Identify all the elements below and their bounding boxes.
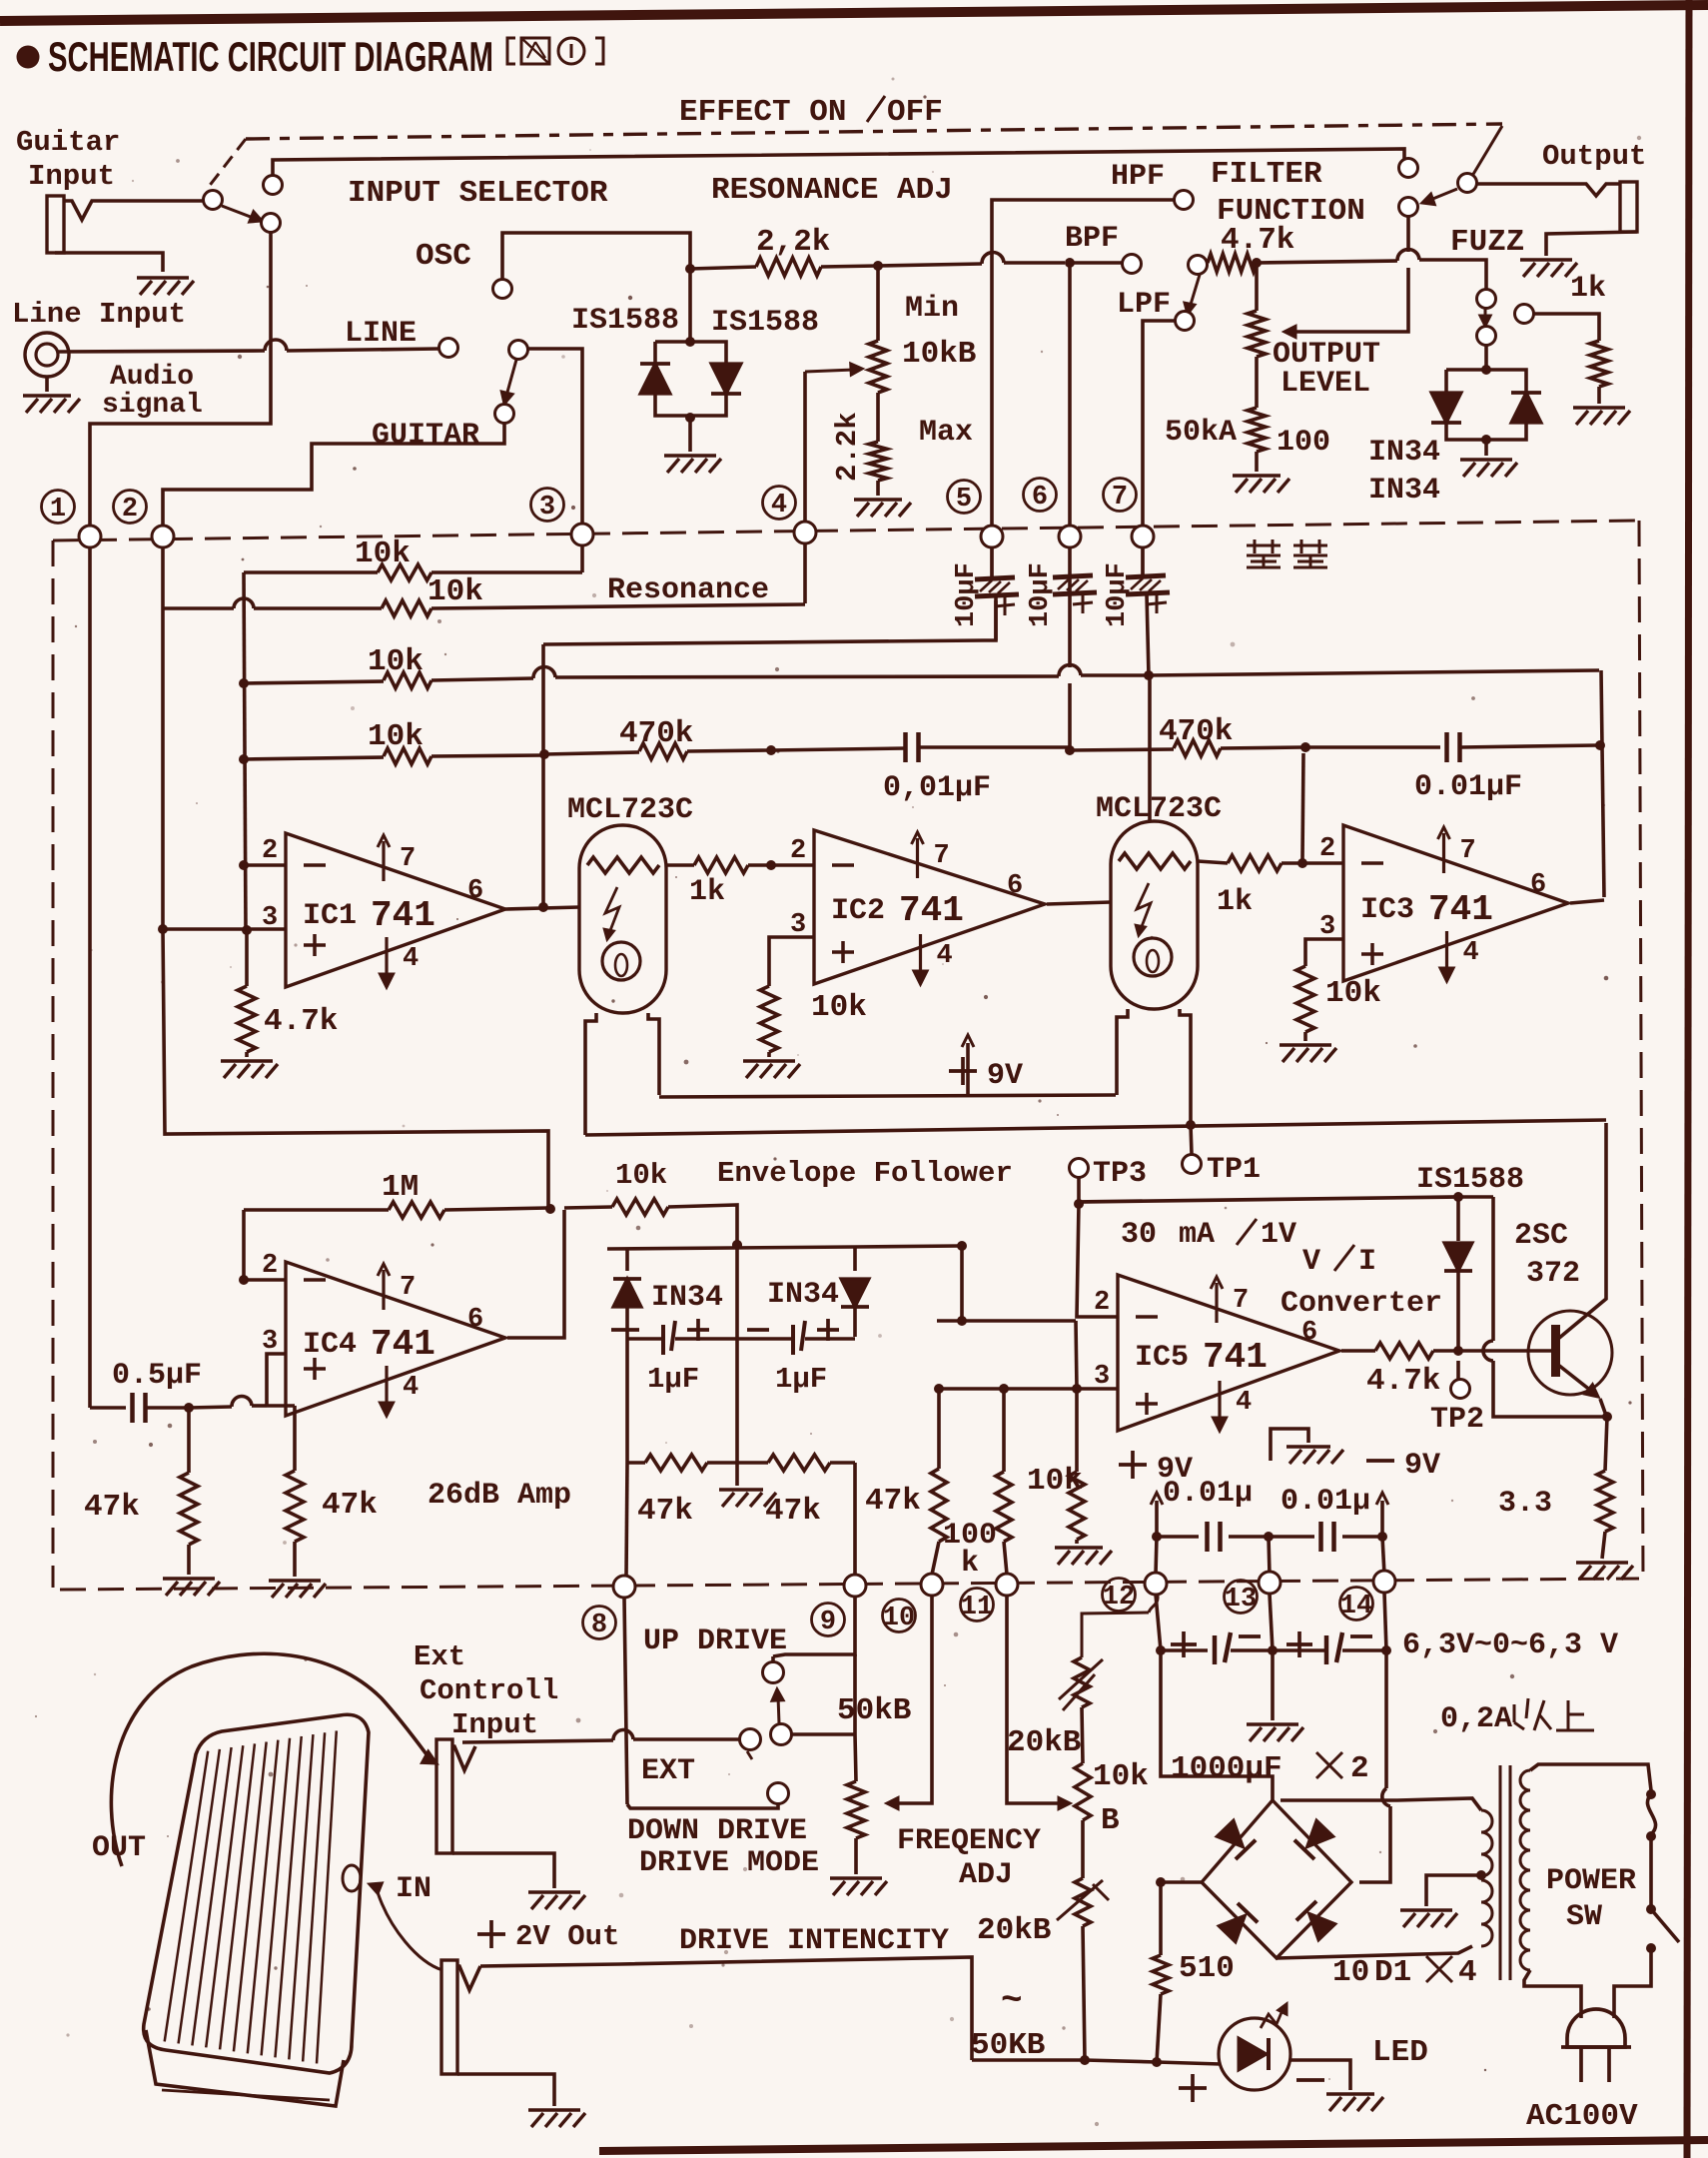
effect output contact bottom — [1399, 198, 1418, 217]
svg-text:0.01μ: 0.01μ — [1163, 1477, 1253, 1511]
ground LED — [1326, 2092, 1374, 2096]
diode D2 IS1588 — [711, 364, 741, 394]
svg-text:20kB: 20kB — [1007, 1725, 1081, 1760]
scan speckles — [561, 355, 565, 359]
svg-text:47k: 47k — [765, 1494, 821, 1529]
svg-text:IS1588: IS1588 — [571, 304, 679, 338]
transformer secondary top — [1281, 1798, 1481, 1810]
svg-text:0,2A: 0,2A — [1440, 1702, 1512, 1736]
svg-text:Max: Max — [919, 416, 973, 450]
wire IC1 pin3 — [163, 927, 286, 931]
ground env — [735, 1463, 739, 1486]
wire cap2 column down — [1068, 547, 1072, 667]
op-amp IC5 741 — [1118, 1275, 1339, 1431]
wire IC2 pin3 — [769, 937, 814, 986]
svg-text:TP2: TP2 — [1430, 1403, 1484, 1437]
effect on/off dashed control line — [246, 124, 1502, 139]
svg-text:6: 6 — [467, 876, 483, 906]
ground mid — [1271, 1429, 1308, 1461]
svg-text:10μF: 10μF — [1103, 562, 1133, 627]
node 7 — [1104, 479, 1137, 512]
wire to IC4 pin3 — [267, 1354, 286, 1406]
wire env center rail — [735, 1245, 739, 1463]
wire node3 stub — [580, 545, 584, 572]
svg-text:~: ~ — [1001, 1980, 1023, 2021]
svg-text:741: 741 — [1428, 889, 1493, 930]
svg-text:OSC: OSC — [416, 239, 471, 274]
svg-text:Min: Min — [905, 292, 959, 326]
ground caps — [1271, 1650, 1275, 1720]
ground +2V jack — [528, 2108, 580, 2112]
svg-text:2: 2 — [1350, 1751, 1369, 1786]
diode D1 IS1588 — [640, 364, 670, 394]
label minus LED — [1296, 2078, 1324, 2082]
svg-text:Output: Output — [1542, 140, 1646, 173]
svg-text:1000μF: 1000μF — [1171, 1751, 1282, 1786]
node 11 — [996, 1574, 1018, 1596]
svg-text:7: 7 — [1233, 1286, 1249, 1316]
wire +2V line — [480, 1957, 972, 2060]
svg-text:10k: 10k — [1093, 1759, 1149, 1794]
center tap ground — [1426, 1875, 1481, 1906]
svg-text:10k: 10k — [427, 574, 483, 609]
svg-text:50kA: 50kA — [1165, 416, 1237, 450]
svg-text:1k: 1k — [1570, 272, 1606, 306]
svg-text:IN34: IN34 — [1368, 436, 1440, 470]
node 14 — [1373, 1571, 1395, 1593]
test point TP3 — [1070, 1159, 1089, 1178]
wire bypass top — [273, 149, 1404, 176]
svg-text:IS1588: IS1588 — [711, 306, 819, 340]
output jack J2 — [1476, 184, 1620, 196]
bridge rectifier 10D1x4 — [1202, 1800, 1351, 1958]
svg-text:mA: mA — [1179, 1218, 1215, 1252]
bridge diode top-left — [1214, 1817, 1256, 1859]
wire IC3 output — [1570, 900, 1604, 903]
svg-text:0.5μF: 0.5μF — [112, 1359, 202, 1393]
arrow up left — [1155, 1501, 1159, 1535]
rail to transistor — [585, 1120, 1606, 1135]
op-amp IC4 741 — [286, 1262, 505, 1416]
50kB wiper — [894, 1597, 932, 1803]
main top wire to filter area — [878, 264, 982, 266]
arrow up right — [1380, 1501, 1384, 1535]
svg-text:6: 6 — [1007, 871, 1023, 901]
diode IN34 left — [1431, 393, 1461, 423]
page border right — [1687, 0, 1689, 2158]
wire 1M to IC4 pin2 — [242, 1210, 246, 1280]
pot drive intencity — [1081, 1820, 1085, 1878]
DOWN contact — [768, 1783, 789, 1804]
ground 10k d — [1055, 1546, 1103, 1550]
guitar input jack J1 — [47, 196, 64, 253]
pedal base — [146, 2030, 344, 2106]
svg-text:EFFECT ON: EFFECT ON — [679, 95, 846, 130]
IS1588 anti-parallel diode pair — [685, 337, 695, 347]
MCL2 legs — [1117, 1009, 1128, 1095]
ground 50kB — [830, 1876, 882, 1880]
svg-text:741: 741 — [899, 890, 964, 931]
switch to plug — [1614, 1948, 1651, 2018]
bridge diode bottom-right — [1296, 1901, 1338, 1943]
FUZZ arrow — [1484, 309, 1487, 320]
svg-text:26dB Amp: 26dB Amp — [427, 1479, 571, 1513]
transformer core — [1499, 1765, 1502, 1980]
svg-text:10kB: 10kB — [902, 337, 976, 372]
wire TP3 down to pin2 — [1077, 1204, 1118, 1317]
svg-text:FUZZ: FUZZ — [1450, 225, 1524, 260]
node 3 — [531, 489, 564, 522]
title kanji zu-1 bracket — [507, 38, 515, 64]
node 8 — [613, 1576, 635, 1598]
node 1 — [42, 491, 75, 524]
decoupling rail — [1157, 1535, 1199, 1539]
current sense line — [1079, 1197, 1456, 1202]
wire pole to 50kB — [792, 1732, 855, 1736]
ground line input — [23, 394, 71, 398]
svg-text:INPUT SELECTOR: INPUT SELECTOR — [348, 176, 608, 211]
rail +9V upper — [659, 1095, 1116, 1097]
10kB wiper arrow — [805, 370, 854, 372]
svg-text:47k: 47k — [322, 1488, 378, 1523]
wire IC1 pin2 — [244, 863, 286, 867]
svg-text:Resonance: Resonance — [607, 573, 769, 607]
svg-text:AC100V: AC100V — [1526, 2099, 1638, 2134]
BPF contact — [1123, 255, 1142, 274]
svg-text:1μF: 1μF — [775, 1363, 827, 1396]
wire to IC2 pin2 — [771, 863, 814, 867]
svg-text:MCL723C: MCL723C — [567, 793, 693, 827]
wire pin3 to +9v arrow — [0, 0, 1077, 1544]
drive mode pole — [771, 1724, 792, 1745]
selector pole GUITAR/LINE/OSC — [509, 341, 528, 360]
svg-text:3: 3 — [1094, 1362, 1110, 1392]
svg-text:100: 100 — [1277, 426, 1330, 460]
svg-text:IN34: IN34 — [651, 1281, 723, 1315]
ground 10k IC3 — [1280, 1043, 1331, 1047]
wire IC1 output — [505, 907, 579, 909]
svg-text:FILTER: FILTER — [1211, 157, 1322, 192]
svg-text:TP3: TP3 — [1093, 1157, 1147, 1191]
MCL1 legs — [585, 1013, 596, 1135]
wire left vertical V1 — [244, 572, 246, 930]
wire IC3 pin3 — [1305, 939, 1343, 966]
ground 47k b — [269, 1579, 321, 1583]
svg-text:BPF: BPF — [1065, 222, 1119, 256]
svg-text:IS1588: IS1588 — [1416, 1163, 1524, 1197]
svg-text:8: 8 — [591, 1611, 607, 1640]
node 9 — [844, 1575, 866, 1597]
LED row — [972, 2058, 1085, 2062]
svg-text:7: 7 — [400, 1273, 416, 1303]
svg-text:LEVEL: LEVEL — [1281, 367, 1370, 401]
svg-text:9V: 9V — [987, 1059, 1023, 1093]
svg-text:IC4: IC4 — [303, 1328, 357, 1362]
power switch — [1649, 1836, 1653, 1906]
svg-text:Controll: Controll — [420, 1674, 558, 1707]
wire IC4 pin2 stub — [244, 1278, 286, 1282]
ground output jack — [1520, 258, 1572, 262]
svg-text:10k: 10k — [811, 990, 867, 1025]
resonance pot 10kB — [876, 266, 880, 341]
wire IC2 output — [1047, 902, 1111, 904]
svg-text:B: B — [1101, 1803, 1120, 1838]
wire from bypass contact down — [90, 233, 271, 526]
input bypass switch pole — [204, 191, 223, 210]
bridge AC bottom — [1277, 1946, 1472, 1958]
wire wiper to node 4 — [803, 372, 807, 522]
label -9V — [1366, 1459, 1394, 1463]
svg-text:10: 10 — [1332, 1955, 1369, 1990]
svg-text:3: 3 — [539, 493, 555, 523]
svg-text:20kB: 20kB — [977, 1913, 1051, 1948]
1k contact — [1515, 305, 1534, 324]
svg-text:4: 4 — [1458, 1955, 1477, 1990]
svg-text:6: 6 — [1032, 483, 1048, 513]
bypass switch arrow — [222, 206, 256, 219]
svg-text:2V Out: 2V Out — [515, 1920, 619, 1953]
svg-text:RESONANCE ADJ: RESONANCE ADJ — [711, 173, 953, 208]
svg-text:7: 7 — [934, 841, 950, 871]
svg-text:4: 4 — [403, 944, 419, 974]
svg-text:POWER: POWER — [1546, 1864, 1636, 1898]
MCL2 top feed — [1148, 675, 1152, 821]
ground 10k IC2 — [743, 1059, 795, 1063]
wire node8 down — [624, 1598, 627, 1804]
svg-text:5: 5 — [956, 485, 972, 515]
transformer primary coil — [1520, 1770, 1530, 1970]
plus minus labels caps — [1171, 1642, 1197, 1646]
ground output level — [1233, 474, 1281, 478]
svg-text:IC5: IC5 — [1135, 1341, 1189, 1375]
svg-text:12: 12 — [1103, 1583, 1135, 1613]
freq wiper — [1007, 1597, 1062, 1803]
svg-text:4: 4 — [771, 491, 787, 521]
resistor 4.7k filter — [1208, 254, 1257, 272]
10uF cap column 1 — [990, 547, 994, 577]
wire node9 to UP contact — [773, 1597, 855, 1656]
effect output switch pole — [1458, 174, 1477, 193]
ground 47k a — [163, 1577, 215, 1581]
svg-text:14: 14 — [1340, 1592, 1372, 1621]
svg-text:10k: 10k — [615, 1159, 667, 1192]
wire pin3 row — [939, 1387, 1118, 1391]
svg-text:TP1: TP1 — [1207, 1153, 1261, 1187]
svg-text:LINE: LINE — [345, 317, 417, 351]
effect output contact top — [1399, 159, 1418, 178]
svg-text:741: 741 — [1203, 1337, 1268, 1378]
wire audio signal to LINE contact — [58, 351, 265, 352]
svg-text:1μF: 1μF — [647, 1363, 699, 1396]
envelope rail top — [607, 1247, 855, 1249]
wire env left rail down to node8 — [626, 1463, 627, 1576]
label +9V supply — [1119, 1463, 1147, 1467]
svg-text:IN34: IN34 — [1368, 474, 1440, 508]
svg-text:7: 7 — [1460, 836, 1476, 866]
wire rail drops — [1156, 1537, 1157, 1575]
ground ext jack — [528, 1890, 580, 1894]
node 2 — [114, 491, 147, 524]
wire GUITAR contact down-left to node 2 — [163, 424, 504, 526]
svg-text:Line Input: Line Input — [12, 298, 186, 331]
wire ext input — [462, 1740, 613, 1742]
wire node9 down to 50kB top — [855, 1654, 856, 1781]
title bullet — [17, 46, 40, 69]
svg-text:IN34: IN34 — [767, 1278, 839, 1312]
svg-text:2,2k: 2,2k — [756, 225, 830, 260]
selector arrow — [506, 360, 516, 396]
transistor collector — [1558, 1123, 1606, 1339]
bridge + rail — [1161, 1650, 1273, 1800]
test point TP1 — [1183, 1155, 1202, 1174]
wire y645 to cap1 bottom — [543, 600, 996, 644]
pot 10kB freq — [1082, 1707, 1083, 1763]
svg-text:I: I — [1358, 1245, 1376, 1279]
svg-text:10μF: 10μF — [1026, 562, 1056, 627]
pedal cable — [111, 1653, 429, 1866]
svg-text:47k: 47k — [637, 1494, 693, 1529]
primary top to switch — [1530, 1764, 1651, 1790]
svg-text:0,01μF: 0,01μF — [883, 771, 991, 805]
svg-text:6,3V~0~6,3 V: 6,3V~0~6,3 V — [1402, 1628, 1618, 1662]
wire contact to main line — [1406, 217, 1410, 252]
dashed diagonal to input bypass switch — [208, 139, 246, 188]
svg-text:2: 2 — [790, 836, 806, 866]
pot 20kB upper — [1074, 1657, 1090, 1707]
svg-text:SW: SW — [1566, 1900, 1602, 1934]
switch squiggle — [1647, 1794, 1655, 1834]
svg-text:10k: 10k — [368, 719, 424, 754]
transformer secondary coil — [1481, 1810, 1492, 1876]
diagonal to output bypass switch — [1472, 126, 1502, 176]
svg-text:741: 741 — [371, 895, 435, 936]
wire node1 down — [88, 547, 92, 1408]
svg-text:Guitar: Guitar — [16, 126, 120, 159]
svg-text:Converter: Converter — [1281, 1287, 1442, 1321]
svg-text:50KB: 50KB — [971, 2028, 1045, 2063]
wire node13 down — [1270, 1594, 1273, 1650]
bridge diode bottom-left — [1216, 1903, 1258, 1945]
wire LPF to node 7 — [1143, 321, 1176, 526]
svg-text:47k: 47k — [84, 1490, 140, 1525]
+9V arrow — [966, 1043, 970, 1095]
svg-text:50kB: 50kB — [837, 1693, 911, 1728]
svg-text:372: 372 — [1526, 1257, 1580, 1291]
ground 4.7k — [221, 1059, 273, 1063]
ground FUZZ diodes — [1460, 458, 1512, 462]
svg-text:ADJ: ADJ — [959, 1858, 1013, 1892]
wire env out drop — [960, 1246, 964, 1321]
svg-text:6: 6 — [467, 1305, 483, 1335]
label plus LED — [1179, 2086, 1207, 2090]
label +9V — [949, 1069, 977, 1073]
svg-text:FREQENCY: FREQENCY — [897, 1824, 1041, 1858]
svg-text:IN: IN — [396, 1872, 431, 1906]
wire contact to output-level wiper — [1290, 268, 1408, 332]
svg-text:6: 6 — [1530, 870, 1546, 900]
label kiban (board) — [1247, 544, 1281, 547]
svg-text:510: 510 — [1179, 1951, 1235, 1986]
svg-text:DOWN DRIVE: DOWN DRIVE — [627, 1814, 807, 1848]
FUZZ switch pole — [1477, 290, 1496, 309]
svg-text:2: 2 — [262, 836, 278, 866]
svg-text:9V: 9V — [1404, 1449, 1440, 1483]
svg-text:1k: 1k — [1217, 885, 1253, 919]
svg-text:V: V — [1302, 1245, 1320, 1279]
node 6 — [1024, 479, 1057, 512]
svg-text:4: 4 — [1463, 938, 1479, 968]
LINE contact — [439, 339, 458, 358]
svg-text:7: 7 — [1112, 483, 1128, 513]
svg-text:47k: 47k — [865, 1484, 921, 1519]
wire 470k node down to 1k node — [1302, 753, 1303, 859]
wire node12 down — [1156, 1595, 1161, 1650]
node 10 — [921, 1574, 943, 1596]
LPF contact — [1176, 312, 1195, 331]
svg-text:11: 11 — [961, 1593, 993, 1622]
wire LED right — [1290, 2060, 1350, 2090]
filter pole arrow to LPF — [1190, 275, 1200, 308]
svg-text:10: 10 — [883, 1604, 915, 1633]
bypass contact upper — [264, 176, 283, 195]
svg-text:4.7k: 4.7k — [264, 1004, 338, 1039]
10uF cap column 2 — [1053, 575, 1093, 577]
wire to IC3 pin2 — [1302, 861, 1343, 865]
GUITAR contact — [495, 405, 514, 424]
svg-text:UP DRIVE: UP DRIVE — [643, 1624, 787, 1658]
bridge - rail — [1161, 1882, 1202, 1955]
10uF cap column 3 — [1141, 547, 1145, 575]
svg-text:2.2k: 2.2k — [831, 412, 864, 482]
node 5 — [948, 481, 981, 514]
svg-text:4: 4 — [403, 1373, 419, 1403]
node 13 — [1259, 1572, 1281, 1594]
ext jack — [436, 1739, 452, 1853]
svg-text:10k: 10k — [1325, 976, 1381, 1011]
bridge diode top-right — [1294, 1817, 1336, 1859]
wire feedback right down to IC3 out — [1601, 670, 1604, 897]
wire node2 to envelope — [163, 929, 548, 1207]
label +2V Out — [477, 1932, 505, 1936]
svg-text:1: 1 — [50, 495, 66, 525]
svg-text:4: 4 — [937, 941, 953, 971]
LPF pot pole contact — [1189, 256, 1208, 275]
wire to FUZZ switch — [1475, 260, 1486, 290]
line input RCA jack — [25, 333, 69, 377]
ground guitar jack — [137, 276, 189, 280]
op-amp IC2 741 — [814, 830, 1045, 984]
transistor emitter — [1558, 1365, 1596, 1395]
wire HPF to node 5 — [992, 200, 1175, 526]
svg-text:SCHEMATIC CIRCUIT DIAGRAM: SCHEMATIC CIRCUIT DIAGRAM — [48, 33, 493, 80]
svg-text:Input: Input — [451, 1708, 538, 1741]
wire TP3 node — [1077, 1178, 1081, 1202]
wire DOWN to node8 — [627, 1804, 778, 1808]
svg-text:2: 2 — [122, 495, 138, 525]
svg-text:1V: 1V — [1261, 1218, 1296, 1252]
effect output arrow — [1430, 189, 1457, 200]
svg-text:DRIVE INTENCITY: DRIVE INTENCITY — [679, 1924, 949, 1958]
svg-text:OUT: OUT — [92, 1831, 146, 1865]
UP contact — [763, 1662, 784, 1683]
wire node4 stub — [803, 543, 807, 603]
page border bottom — [599, 2140, 1708, 2151]
op-amp IC1 741 — [286, 833, 505, 987]
svg-text:30: 30 — [1121, 1218, 1157, 1252]
svg-text:2SC: 2SC — [1514, 1219, 1568, 1253]
feedback line hop — [1491, 1197, 1495, 1341]
svg-text:3.3: 3.3 — [1498, 1487, 1552, 1521]
